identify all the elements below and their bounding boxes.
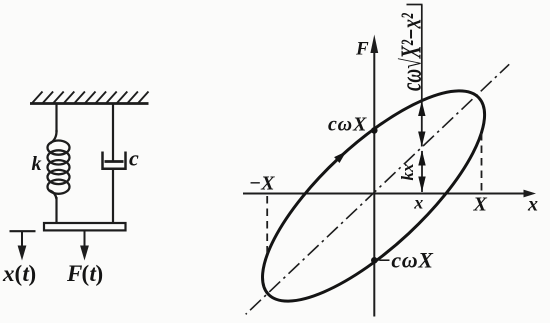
svg-text:X: X [473,194,488,216]
wire: damper bottom rod [112,169,114,224]
F(t) arrow [84,231,86,251]
ceiling hatching [32,92,149,104]
svg-text:F: F [66,261,82,286]
node dot cwX [371,127,378,134]
dimension line / radical bar [421,5,423,101]
damper c cylinder cup [103,152,126,169]
svg-text:kx: kx [398,163,417,181]
x(t) reference tick [10,230,36,232]
spring k coil [48,130,70,199]
svg-text:−cωX: −cωX [378,248,435,273]
svg-text:c: c [129,146,139,171]
fixed ceiling line [30,102,149,105]
svg-text:x: x [413,193,423,213]
mass bar [44,223,126,230]
x(t) arrow [21,231,23,250]
F axis [373,52,375,317]
direction arrowhead on ellipse [334,151,346,163]
svg-text:cω√X²−x²: cω√X²−x² [396,13,428,91]
svg-text:(: ( [82,261,90,286]
x axis [243,193,527,195]
svg-text:x: x [527,194,538,216]
wire: damper top rod [112,104,114,163]
svg-text:cωX: cωX [328,114,367,136]
dashed drop line at X [481,133,483,193]
svg-text:x: x [2,261,15,286]
svg-text:(: ( [15,261,23,286]
hysteresis ellipse [233,60,514,323]
node dot -cwX [371,257,378,264]
dash-dot centre line F=kx [246,64,510,314]
dashed drop line at -X [266,196,268,255]
radical bar top tick [407,4,423,6]
svg-text:F: F [355,39,369,60]
svg-text:−X: −X [249,173,275,195]
double arrow cw sqrt segment [421,101,423,147]
damper c piston plate [105,160,124,163]
wire: spring bottom rod [55,197,57,224]
wire: spring top rod [55,104,57,133]
svg-text:): ) [29,261,37,286]
svg-text:): ) [96,261,104,286]
double arrow kx segment [421,151,423,192]
svg-text:k: k [32,153,42,175]
